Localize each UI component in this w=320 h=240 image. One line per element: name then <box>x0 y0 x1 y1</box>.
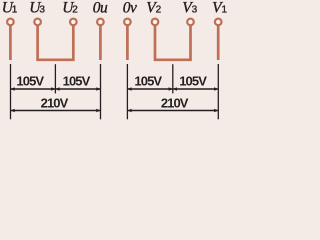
wire stub 0v <box>126 24 129 60</box>
svg-text:105V: 105V <box>16 73 44 88</box>
terminal circle U2 <box>70 19 77 26</box>
svg-text:210V: 210V <box>161 96 189 111</box>
dimension 105V left-left line <box>11 88 55 90</box>
svg-text:210V: 210V <box>41 96 69 111</box>
extension line left group B <box>100 64 102 119</box>
svg-text:0u: 0u <box>93 0 108 17</box>
extension line left group A <box>10 64 12 119</box>
svg-text:105V: 105V <box>179 73 207 88</box>
wire jumper V2-V3 <box>155 25 191 60</box>
dimension 210V left line <box>11 110 100 112</box>
wire stub U1 <box>9 24 12 60</box>
terminal circle V2 <box>152 19 159 26</box>
extension line right group A <box>126 64 128 119</box>
extension line right group B <box>217 64 219 119</box>
terminal circle V3 <box>187 19 194 26</box>
svg-text:105V: 105V <box>134 73 162 88</box>
terminal circle U3 <box>34 19 41 26</box>
svg-text:0v: 0v <box>123 0 137 17</box>
dimension 105V left-right line <box>56 88 100 90</box>
svg-text:105V: 105V <box>63 73 91 88</box>
dimension 210V right line <box>128 110 218 112</box>
dimension 105V right-right line <box>173 88 218 90</box>
terminal circle 0u <box>97 19 104 26</box>
dimension 105V right-left line <box>128 88 172 90</box>
wire stub 0u <box>99 24 102 60</box>
terminal circle U1 <box>7 19 14 26</box>
terminal circle 0v <box>124 19 131 26</box>
terminal circle V1 <box>215 19 222 26</box>
wire stub V1 <box>217 24 220 60</box>
wire jumper U3-U2 <box>38 25 74 60</box>
extension line right group mid <box>172 64 174 93</box>
extension line left group mid <box>54 64 56 93</box>
